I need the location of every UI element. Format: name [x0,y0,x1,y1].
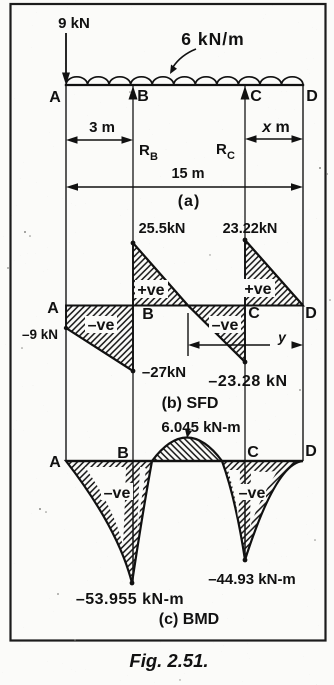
svg-text:D: D [305,443,317,460]
svg-text:B: B [150,151,158,163]
svg-text:A: A [49,454,61,471]
svg-text:–ve: –ve [239,485,266,502]
svg-text:R: R [139,142,150,159]
svg-text:–44.93 kN-m: –44.93 kN-m [208,571,296,588]
svg-text:C: C [248,305,260,322]
svg-text:B: B [142,306,154,323]
svg-text:B: B [117,445,129,462]
svg-text:Fig. 2.51.: Fig. 2.51. [129,650,208,671]
svg-text:D: D [305,305,317,322]
svg-text:3 m: 3 m [89,119,115,136]
svg-text:–9 kN: –9 kN [22,327,58,342]
svg-text:B: B [137,88,149,105]
svg-text:(b) SFD: (b) SFD [162,395,219,412]
svg-text:–ve: –ve [212,317,239,334]
svg-text:C: C [250,88,262,105]
svg-text:–ve: –ve [104,485,131,502]
svg-text:6 kN/m: 6 kN/m [181,29,244,49]
svg-text:–27kN: –27kN [142,364,186,381]
svg-text:C: C [227,150,235,162]
svg-text:x m: x m [261,119,290,136]
svg-text:+ve: +ve [137,282,164,299]
svg-text:9 kN: 9 kN [58,15,90,32]
svg-text:–23.28 kN: –23.28 kN [208,373,287,390]
svg-text:(a): (a) [178,193,201,210]
svg-text:A: A [47,300,59,317]
svg-text:A: A [49,89,61,106]
svg-text:(c) BMD: (c) BMD [159,611,219,628]
svg-text:23.22kN: 23.22kN [223,221,278,237]
svg-text:+ve: +ve [244,281,271,298]
svg-text:–ve: –ve [88,317,115,334]
svg-text:y: y [277,329,287,345]
svg-text:–53.955 kN-m: –53.955 kN-m [76,591,184,608]
svg-text:15 m: 15 m [171,166,204,182]
svg-text:C: C [247,444,259,461]
svg-text:R: R [216,141,227,158]
svg-text:6.045 kN-m: 6.045 kN-m [161,419,240,436]
svg-text:25.5kN: 25.5kN [139,221,186,237]
svg-text:D: D [306,88,318,105]
